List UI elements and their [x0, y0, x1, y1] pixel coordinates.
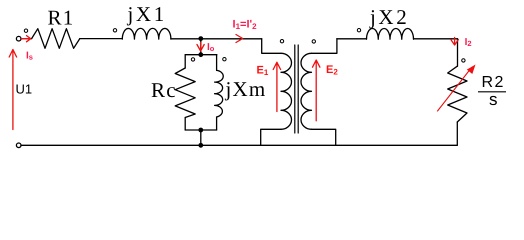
wire jXm bottom stub	[216, 117, 218, 130]
pin marker jX2	[357, 29, 360, 32]
wire secondary bottom exit	[312, 129, 336, 145]
fraction bar R2/s	[478, 91, 506, 93]
wire top-left	[21, 38, 32, 40]
svg-text:Rc: Rc	[151, 78, 177, 102]
node box bottom junction	[198, 128, 203, 133]
inductor jXm	[215, 70, 224, 117]
wire Rc top stub	[184, 55, 186, 68]
wire magnetizing box top	[185, 54, 217, 56]
wire jX2 to right corner	[414, 38, 458, 40]
svg-text:jXm: jXm	[225, 77, 267, 101]
wire primary bottom exit	[261, 129, 281, 145]
wire R1 to jX1	[80, 38, 123, 40]
pin marker jX1	[113, 29, 116, 32]
arrow I0	[197, 43, 204, 52]
arrow Is	[21, 36, 30, 42]
bottom rail	[21, 144, 457, 146]
terminal T2 (input bottom)	[16, 143, 21, 148]
junction node dots	[198, 36, 203, 148]
pin marker source	[24, 29, 27, 32]
svg-text:R1: R1	[48, 6, 75, 30]
wire box to bottom rail	[200, 130, 202, 145]
arrow E2	[313, 60, 320, 121]
node box top junction	[198, 52, 203, 57]
svg-text:Io: Io	[207, 42, 215, 53]
arrow R2 variable	[438, 70, 471, 112]
inductor jX1	[122, 28, 171, 39]
arrow I2	[451, 38, 459, 46]
transformer secondary winding	[301, 53, 312, 129]
arrow U1	[9, 50, 16, 130]
wire right branch top	[457, 39, 459, 66]
arrow E1	[273, 62, 280, 111]
wire jX1 to transformer	[171, 38, 262, 40]
inductor jX2	[367, 29, 414, 40]
pin marker Rc	[191, 58, 194, 61]
svg-text:jX1: jX1	[127, 2, 167, 26]
svg-text:I2: I2	[465, 37, 472, 48]
resistor R1	[32, 29, 80, 49]
component pin marker circles	[24, 29, 465, 63]
node bottom rail junction	[198, 143, 203, 148]
wire node branch stub	[200, 39, 202, 55]
transformer primary winding	[281, 53, 292, 129]
node top junction	[198, 36, 203, 41]
pin marker primary	[280, 40, 283, 43]
resistor Rc	[175, 68, 195, 118]
transformer core	[295, 45, 298, 133]
terminal T1 (input top)	[16, 36, 21, 41]
wire secondary top exit	[312, 39, 337, 54]
svg-text:Is: Is	[26, 51, 33, 62]
svg-text:R2: R2	[482, 74, 505, 91]
svg-text:U1: U1	[16, 82, 33, 97]
resistor R2/s	[448, 66, 467, 122]
wire Rc bottom stub	[184, 118, 186, 131]
wire jXm top stub	[216, 55, 218, 71]
pin marker jXm	[223, 58, 226, 61]
wire magnetizing box bottom	[185, 129, 216, 131]
wire right branch bottom	[456, 122, 458, 145]
svg-text:jX2: jX2	[369, 5, 409, 29]
svg-text:s: s	[489, 90, 498, 109]
arrow I1	[236, 35, 243, 43]
wire secondary to jX2	[337, 38, 367, 40]
wire step down to primary	[262, 39, 281, 54]
pin marker secondary	[312, 40, 315, 43]
pin marker R2	[462, 59, 465, 62]
arrowhead R2 variable	[467, 65, 476, 75]
